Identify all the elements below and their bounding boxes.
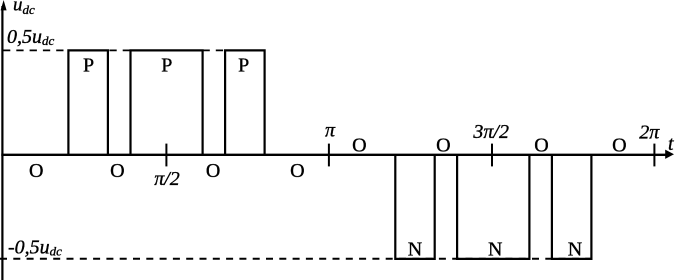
svg-text:2π: 2π <box>639 122 660 144</box>
svg-text:P: P <box>83 55 94 77</box>
svg-text:O: O <box>612 134 626 156</box>
svg-text:O: O <box>206 160 220 182</box>
svg-text:N: N <box>568 238 582 260</box>
svg-text:3π/2: 3π/2 <box>472 121 509 143</box>
svg-text:O: O <box>290 160 304 182</box>
svg-text:O: O <box>352 134 366 156</box>
svg-text:N: N <box>408 238 422 260</box>
svg-text:O: O <box>29 160 43 182</box>
svg-text:O: O <box>110 160 124 182</box>
svg-text:P: P <box>161 55 172 77</box>
svg-text:t: t <box>668 133 674 155</box>
svg-text:N: N <box>488 238 502 260</box>
svg-text:O: O <box>436 134 450 156</box>
svg-text:π/2: π/2 <box>154 168 180 190</box>
svg-text:P: P <box>238 55 249 77</box>
svg-text:π: π <box>325 119 336 141</box>
svg-text:udc: udc <box>13 0 35 17</box>
svg-text:O: O <box>534 134 548 156</box>
